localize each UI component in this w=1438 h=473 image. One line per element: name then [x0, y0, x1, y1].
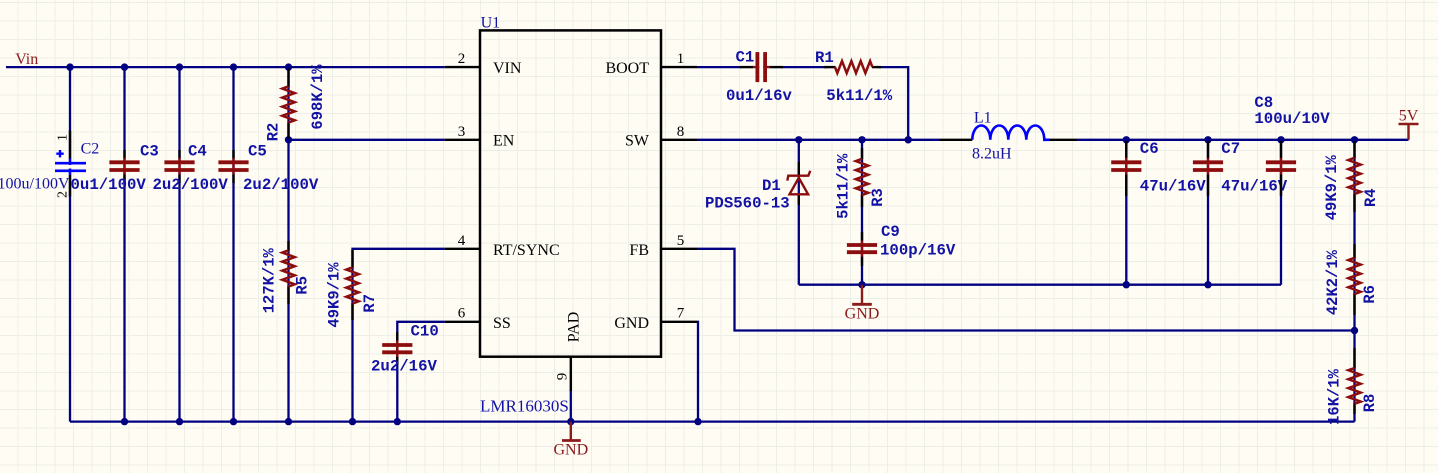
svg-text:C7: C7: [1221, 140, 1240, 158]
svg-text:R8: R8: [1361, 394, 1379, 413]
svg-text:U1: U1: [481, 15, 501, 32]
wire FB to feedback divider: [697, 249, 1355, 331]
svg-text:R4: R4: [1362, 188, 1380, 207]
svg-text:2u2/100V: 2u2/100V: [243, 176, 319, 194]
svg-text:1: 1: [677, 51, 685, 67]
wire RT/SYNC to R7: [353, 249, 445, 422]
wire R4 R6 R8 branch: [1353, 140, 1355, 422]
capacitor C9 100p/16V: [847, 223, 956, 266]
svg-text:6: 6: [458, 306, 466, 322]
svg-text:9: 9: [555, 373, 571, 381]
wire R1 to SW node: [879, 67, 908, 140]
svg-text:GND: GND: [553, 442, 588, 459]
capacitor C4 2u2/100V: [153, 142, 229, 194]
inductor L1 8.2uH: [940, 110, 1077, 163]
resistor R6 42K2/1%: [1324, 244, 1379, 315]
svg-text:GND: GND: [845, 306, 880, 323]
resistor R8 16K/1%: [1326, 348, 1380, 425]
svg-text:100u/100V: 100u/100V: [0, 176, 70, 193]
svg-text:4: 4: [458, 233, 466, 249]
pin 5 FB: [629, 233, 697, 259]
wire EN to R2: [289, 139, 445, 141]
ground symbol below PAD: [553, 422, 588, 459]
resistor R2 698K/1%: [265, 64, 328, 142]
svg-text:5k11/1%: 5k11/1%: [835, 153, 853, 219]
wire C3 branch vertical: [123, 67, 125, 422]
junction dot EN/R2: [285, 136, 292, 143]
svg-text:127K/1%: 127K/1%: [261, 247, 279, 313]
svg-text:R1: R1: [815, 49, 834, 67]
wire SS to C10: [397, 322, 445, 422]
svg-text:C10: C10: [411, 323, 439, 341]
op-amp U1 body LMR16030S: [480, 15, 661, 416]
svg-text:0u1/16v: 0u1/16v: [726, 87, 792, 105]
wire R3 C9 branch: [861, 140, 863, 285]
svg-text:47u/16V: 47u/16V: [1140, 177, 1206, 195]
svg-text:1: 1: [56, 134, 71, 141]
svg-text:L1: L1: [974, 110, 992, 127]
svg-text:5k11/1%: 5k11/1%: [826, 87, 892, 105]
pin 3 EN: [445, 124, 515, 150]
resistor R7 49K9/1%: [326, 250, 380, 328]
junction dots on diode rail: [858, 281, 1211, 288]
svg-text:D1: D1: [762, 177, 781, 195]
svg-text:3: 3: [458, 124, 466, 140]
svg-text:16K/1%: 16K/1%: [1326, 368, 1344, 425]
svg-text:PAD: PAD: [566, 312, 583, 343]
capacitor C6 47u/16V: [1111, 140, 1206, 196]
svg-text:0u1/100V: 0u1/100V: [71, 176, 147, 194]
svg-text:FB: FB: [629, 242, 649, 259]
wire R2 R5 branch vertical: [287, 67, 289, 422]
svg-text:C5: C5: [248, 142, 267, 160]
resistor R3 5k11/1%: [835, 148, 888, 219]
pin 8 SW: [625, 124, 697, 150]
pin 6 SS: [445, 306, 511, 333]
pin 4 RT/SYNC: [445, 233, 560, 259]
capacitor C10 2u2/16V: [371, 323, 439, 376]
wire Vin rail: [6, 66, 445, 68]
svg-text:SW: SW: [625, 133, 650, 150]
pin 1 BOOT: [605, 51, 697, 77]
resistor R4 49K9/1%: [1323, 141, 1380, 220]
junction dots on SW rail: [795, 136, 1358, 143]
svg-text:PDS560-13: PDS560-13: [705, 194, 790, 212]
svg-text:R7: R7: [361, 294, 379, 313]
wire C4 branch vertical: [178, 67, 180, 422]
svg-text:R5: R5: [294, 276, 312, 295]
svg-text:R3: R3: [869, 188, 887, 207]
svg-text:C1: C1: [736, 49, 755, 67]
capacitor C2 100u/100V polarized: [0, 131, 99, 199]
svg-text:RT/SYNC: RT/SYNC: [493, 242, 560, 259]
svg-text:R6: R6: [1361, 285, 1379, 304]
capacitor C3 0u1/100V: [71, 142, 159, 194]
svg-text:2u2/16V: 2u2/16V: [371, 358, 437, 376]
svg-text:C3: C3: [140, 142, 159, 160]
wire D1 branch: [798, 140, 800, 285]
power port Vin: [15, 51, 38, 68]
pin 7 GND: [614, 306, 697, 333]
svg-text:42K2/1%: 42K2/1%: [1324, 249, 1342, 315]
capacitor C8 100u/10V: [1254, 94, 1330, 196]
svg-text:47u/16V: 47u/16V: [1221, 177, 1287, 195]
svg-text:C4: C4: [188, 142, 207, 160]
power port 5V: [1399, 108, 1419, 140]
svg-text:8: 8: [677, 124, 685, 140]
wire C8 branch: [1280, 140, 1282, 285]
resistor R5 127K/1%: [261, 241, 312, 313]
svg-text:R2: R2: [265, 123, 283, 142]
svg-text:VIN: VIN: [493, 60, 522, 77]
svg-text:7: 7: [677, 306, 685, 322]
wire D1 bottom rail to C8: [799, 284, 1281, 286]
svg-text:5V: 5V: [1399, 108, 1419, 125]
svg-text:8.2uH: 8.2uH: [972, 146, 1012, 163]
svg-text:LMR16030S: LMR16030S: [480, 397, 569, 416]
wire L1 to output rail: [1077, 139, 1409, 141]
svg-text:2: 2: [458, 51, 466, 67]
wire BOOT to C1: [697, 66, 742, 68]
junction dot FB divider: [1351, 327, 1358, 334]
wire C1 to R1: [781, 66, 828, 68]
svg-text:698K/1%: 698K/1%: [309, 64, 327, 130]
wire C7 branch: [1207, 140, 1209, 285]
svg-text:SS: SS: [493, 315, 511, 332]
svg-text:EN: EN: [493, 133, 515, 150]
wire C5 branch vertical: [232, 67, 234, 422]
junction dots on Vin rail: [66, 63, 292, 70]
svg-text:C6: C6: [1140, 140, 1159, 158]
svg-text:BOOT: BOOT: [605, 60, 649, 77]
capacitor C1 0u1/16v: [726, 49, 792, 105]
wire SW rail: [697, 139, 940, 141]
capacitor C5 2u2/100V: [218, 142, 318, 194]
wire C2 branch vertical: [69, 67, 71, 422]
junction dots on bottom rail: [121, 418, 702, 425]
wire GND pin7 to bottom rail: [697, 322, 698, 422]
svg-text:100u/10V: 100u/10V: [1254, 110, 1330, 128]
svg-text:Vin: Vin: [15, 51, 38, 68]
svg-text:49K9/1%: 49K9/1%: [326, 262, 344, 328]
pin 2 VIN: [445, 51, 522, 77]
resistor R1 5k11/1%: [815, 49, 893, 105]
diode D1 PDS560-13 schottky: [705, 162, 810, 212]
wire C6 branch: [1125, 140, 1127, 285]
svg-text:2u2/100V: 2u2/100V: [153, 176, 229, 194]
svg-text:100p/16V: 100p/16V: [880, 242, 956, 260]
svg-text:C2: C2: [81, 141, 100, 158]
svg-text:C9: C9: [881, 223, 900, 241]
pin 9 PAD: [555, 312, 583, 391]
svg-text:5: 5: [677, 233, 685, 249]
svg-text:49K9/1%: 49K9/1%: [1323, 154, 1341, 220]
capacitor C7 47u/16V: [1193, 140, 1288, 196]
wire PAD to bottom rail: [570, 390, 572, 422]
wire ground bottom rail: [70, 420, 1355, 422]
svg-text:GND: GND: [614, 315, 649, 332]
ground symbol below C9: [845, 285, 880, 323]
